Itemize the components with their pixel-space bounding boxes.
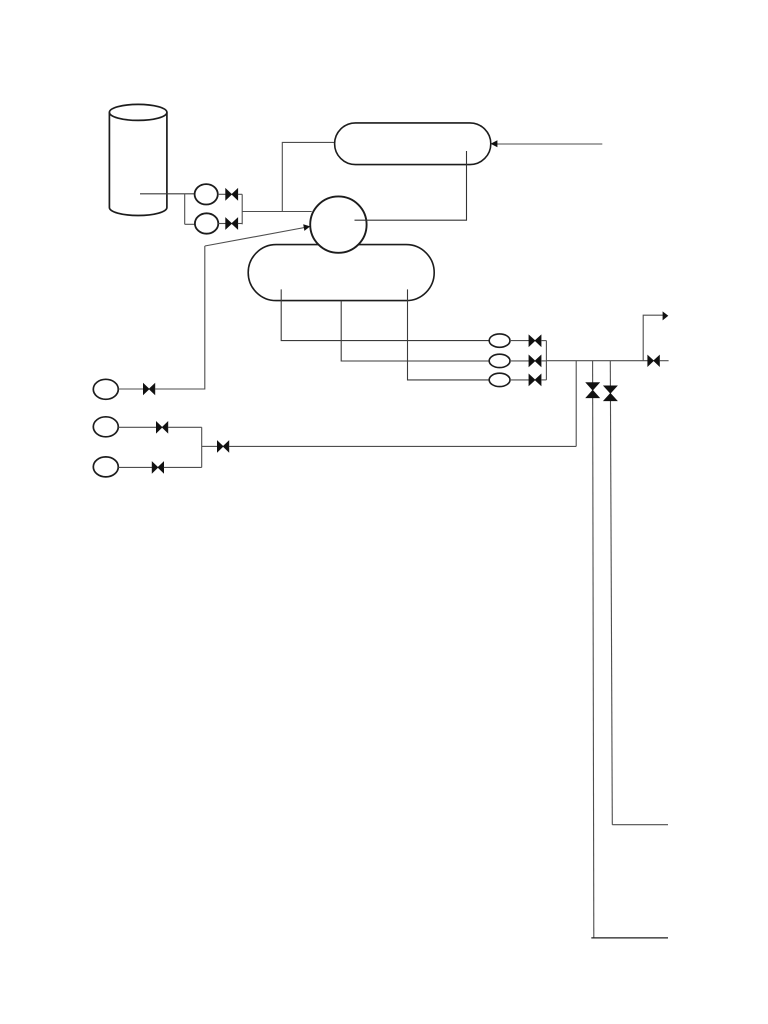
valve V7 (vertical) [586, 383, 600, 398]
wire junction to valve VJ [202, 445, 218, 447]
valve V2 [226, 218, 238, 229]
circle L3 [93, 457, 118, 477]
valve V1 [226, 189, 238, 200]
valve V5 [529, 374, 541, 385]
wire L1 to valve VL1 [118, 388, 143, 390]
wire L3 to valve VL3 [118, 466, 152, 468]
wire D2 outlet B [341, 301, 489, 361]
instrument E1 (ellipse row 1) [489, 334, 510, 347]
vessel D2 (horizontal drum middle) [248, 245, 434, 301]
instrument E3 (ellipse row 3) [489, 373, 510, 386]
wire VJ long run to node N2 [229, 445, 576, 447]
wire main header [546, 360, 648, 362]
vessel D1 (horizontal drum top) [335, 123, 491, 165]
wire K1 discharge to D1 bottom [355, 151, 467, 220]
wire vent riser [643, 315, 663, 361]
wire right header of pump pair [241, 194, 243, 224]
wire P1 to valve V1 [218, 193, 226, 195]
wire E1 to valve V3 [510, 340, 529, 342]
wire V5 to collector [541, 379, 546, 381]
wire V4 to collector [541, 360, 546, 362]
valve V8 (vertical) [604, 386, 618, 401]
valve VL1 [143, 383, 155, 394]
wire long drop line 1 [593, 361, 594, 938]
circle L1 [93, 379, 118, 399]
compressor K1 (circle over D2) [310, 196, 366, 252]
wire V2 to right header [238, 223, 242, 225]
wire E2 to valve V4 [510, 360, 529, 362]
wire V6 tail [660, 360, 669, 362]
wire V1 to right header [238, 193, 242, 195]
instrument E2 (ellipse row 2) [489, 354, 510, 367]
wire P2 to valve V2 [218, 223, 226, 225]
diagonal wire from valve VL1 riser to K1 [205, 228, 305, 247]
arrow vent outlet [663, 311, 669, 320]
wire tank outlet [140, 193, 194, 195]
wire VL2 to junction header [168, 426, 202, 428]
wire pump pair outlet to compressor K1 [242, 211, 312, 213]
valve VJ [217, 441, 229, 452]
wire bottom outlet 1 [591, 937, 668, 939]
valve VL3 [152, 462, 164, 473]
wire bottom outlet 2 [612, 824, 668, 826]
valve VL2 [156, 422, 168, 433]
wire left header of pump pair [184, 194, 186, 225]
wire L2 to valve VL2 [118, 426, 156, 428]
valve V4 [529, 355, 541, 366]
wire collector (node N1) [545, 341, 547, 380]
wire stub to pump P2 [185, 223, 195, 225]
wire VL3 to junction header [164, 466, 202, 468]
wire junction header vertical [201, 427, 203, 467]
valve V6 [648, 355, 660, 366]
arrow into vessel D1 [491, 140, 498, 147]
circle L2 [93, 417, 118, 437]
wire D2 outlet A [281, 289, 489, 340]
tank T1 (vertical cylinder) [109, 104, 167, 215]
wire long drop line 2 [610, 361, 612, 825]
pump P2 (circle) [195, 213, 218, 233]
wire V3 to collector [541, 340, 546, 342]
valve V3 [529, 335, 541, 346]
wire drop to node N2 [575, 361, 577, 447]
wire D2 outlet C [408, 289, 490, 380]
wire E3 to valve V5 [510, 379, 529, 381]
arrow into compressor K1 [303, 224, 310, 231]
wire vessel D1 left nozzle down to K1 inlet [282, 142, 335, 211]
wire feed arrow line into D1 [497, 143, 602, 145]
wire VL1 to riser [155, 246, 205, 389]
pump P1 (circle) [195, 184, 218, 204]
